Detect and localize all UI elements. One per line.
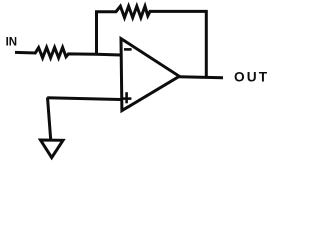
svg-text:IN: IN [6,37,18,49]
svg-text:OUT: OUT [234,69,269,84]
